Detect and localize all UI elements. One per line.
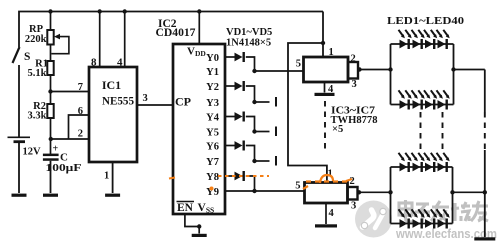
wire LED row3 [391,166,453,168]
svg-text:3: 3 [143,93,148,104]
svg-text:2: 2 [351,54,356,65]
svg-text:4: 4 [329,208,335,219]
node Y5 junction [252,129,256,133]
driver IC7 TWH8778 box [305,183,348,204]
LED row1-1 [399,30,412,49]
wire Y7 stub to other IC [255,160,270,162]
wire pin 7 [51,91,90,93]
wire Y3 stub to other IC [255,101,270,103]
LED row4-2 [412,209,425,228]
ground (battery) [12,194,27,197]
wire R1 to node7 [50,75,52,104]
LED row2-3 [424,90,437,109]
wire pin 8 [99,12,101,68]
svg-text:C: C [60,152,68,164]
svg-text:3.3k: 3.3k [28,111,47,122]
wire LED row1 [391,43,454,45]
wire rail to RP [50,12,52,31]
ground (IC7) [315,224,337,227]
svg-text:3: 3 [351,201,356,212]
wire pin 2 [51,138,89,140]
wire VD5 to Y9 [246,176,255,191]
wire LED left rail (top group) [390,44,392,105]
wire power feed to IC7 pin1 [288,43,327,183]
resistor R2 3.3k [47,104,53,118]
svg-text:S: S [24,51,30,63]
dashed continuation mark (Y3) [275,97,277,107]
LED row3-4 [437,153,450,172]
ground (CD4017) [192,234,207,237]
driver IC3 TWH8778 box [304,57,349,82]
svg-text:IC1: IC1 [102,78,121,92]
node top rail / RP branch [48,9,52,13]
svg-text:1: 1 [104,171,109,182]
orange mark IC7 pin2 [346,179,352,181]
dashed continuation mark (Y7) [275,156,277,166]
orange mark IC7 pin5 corner [303,186,308,189]
wire top rail [19,12,323,48]
LED row1-2 [412,30,425,49]
svg-text:Y4: Y4 [206,113,220,124]
svg-text:LED1~LED40: LED1~LED40 [387,15,465,27]
wire pin 1 [112,162,114,193]
wire R2 to node2 [50,118,52,154]
wire EN/VSS to ground [185,214,199,234]
node Y1 junction [252,69,256,73]
wire Y1 to IC3 pin5 [255,70,304,72]
op IC1 NE555 box [89,67,137,162]
capacitor C 100uF [43,154,59,157]
ground (pin1 NE555) [105,194,120,197]
svg-text:CP: CP [175,95,191,109]
svg-text:2: 2 [78,129,83,140]
wire LED row4 [391,223,453,225]
wire pin 6 [69,115,90,139]
svg-text:5: 5 [295,181,300,192]
wire Y5 stub to other IC [255,131,270,133]
wire battery to ground [18,143,20,193]
wire IC3 pin4 to ground [324,82,326,93]
diode VD5 [235,172,243,181]
watermark logo circle [355,201,392,238]
wire VD2 to Y3 [246,86,255,102]
svg-text:5: 5 [296,59,301,70]
diode VD1 [235,53,243,62]
LED row2-4 [437,90,450,109]
svg-text:Y6: Y6 [206,142,219,153]
wire LED row2 [391,104,454,106]
wire top group to right bus [454,69,485,71]
LED row4-3 [424,209,437,228]
svg-text:VD1~VD5: VD1~VD5 [226,27,272,38]
svg-text:+: + [53,144,59,155]
wire VD4 to Y7 [246,146,255,162]
LED row4-4 [437,209,450,228]
LED row3-1 [399,153,412,172]
diode VD2 [235,82,243,91]
wire pin 4 [124,12,126,68]
wire LED right rail (top group) [453,44,455,105]
svg-text:EN: EN [177,202,194,214]
LED row4-1 [399,209,412,228]
node pin7 junction [48,89,52,93]
switch S [13,47,20,63]
ground (C) [43,194,58,197]
wire C to ground [50,161,52,193]
LED row2-1 [399,90,412,109]
svg-text:3: 3 [352,79,357,90]
diode VD3 [235,112,243,121]
svg-text:NE555: NE555 [102,94,134,108]
wire Y2 out [225,85,235,87]
svg-text:8: 8 [91,57,97,69]
IC3 output box pins 2/3 [348,62,358,79]
svg-text:Y3: Y3 [206,98,219,109]
LED row1-4 [437,30,450,49]
IC7 output box pins 2/3 [348,187,358,200]
counter IC2 CD4017 box [173,44,225,214]
ground (IC3) [315,93,335,96]
dashed continuation mark (Y5) [275,127,277,137]
orange highlight on Y8 wire [218,175,269,177]
RP wiper arm [51,37,69,54]
wire Y6 out [225,145,235,147]
svg-text:CD4017: CD4017 [156,27,196,39]
ground (right bus) [474,237,495,240]
resistor R1 5.1k [47,61,53,75]
svg-text:7: 7 [78,82,83,93]
node pin2 / C junction [49,137,53,141]
svg-text:2: 2 [350,176,355,187]
node pin8 rail [98,9,102,13]
battery 12V [8,136,31,138]
wire pin 3 to CP [137,104,173,106]
wire bottom group to right bus [453,191,485,193]
diode VD4 [235,141,243,150]
wire Y0 out [225,56,235,58]
wire Y4 out [225,116,235,118]
svg-text:Y5: Y5 [206,128,219,139]
wire right bus upper [484,70,486,113]
wire Y8 out [225,175,235,177]
LED row1-3 [424,30,437,49]
LED row3-3 [424,153,437,172]
dashed right bus middle [484,112,486,150]
dashed continuation LED strings right [442,112,444,149]
wire VD3 to Y5 [246,117,255,132]
wire LED left rail (bottom group) [390,167,392,224]
node Y3 junction [252,100,256,104]
svg-text:1N4148×5: 1N4148×5 [226,38,271,49]
wire IC7 output to LEDs [358,191,391,193]
potentiometer RP 220k [47,30,53,45]
svg-text:×5: ×5 [332,124,343,135]
wire VDD [198,12,200,45]
svg-text:Y1: Y1 [206,67,219,78]
wire Y9 to IC7 pin5 [225,190,305,192]
LED row2-2 [412,90,425,109]
orange mark near Y9 [210,187,214,191]
wire RP to R1 [50,45,52,62]
svg-text:12V: 12V [23,147,42,158]
wire top rail to IC3 pin1 [322,12,324,58]
wire VD1 to Y1 [246,57,255,71]
orange squiggle on IC7 top edge [306,180,347,182]
node VDD rail [197,9,201,13]
svg-text:5.1k: 5.1k [28,68,47,79]
LED row3-2 [412,153,425,172]
svg-text:Y2: Y2 [206,82,219,93]
orange loop at IC7 pin1 [320,175,333,183]
wire right bus lower [484,150,486,237]
node Y9 junction [252,189,256,193]
svg-text:6: 6 [78,106,83,117]
wire IC7 pin4 to ground [325,203,327,224]
svg-text:4: 4 [117,57,123,69]
dashed continuation LED strings left [420,112,422,149]
node power branch [321,41,325,45]
svg-text:Y8: Y8 [206,172,219,183]
svg-text:220k: 220k [25,34,47,45]
node Y7 junction [252,159,256,163]
watermark chinese characters [399,200,488,222]
wire left rail lower [18,65,20,137]
orange mark CD4017 edge [169,178,175,179]
wire IC3 output to LEDs [358,69,391,71]
dashed line repeated ICs [324,101,326,150]
wire LED right rail (bottom group) [452,167,454,224]
svg-text:Y7: Y7 [206,157,219,168]
svg-text:Y0: Y0 [206,53,219,64]
node pin4 rail [123,9,127,13]
